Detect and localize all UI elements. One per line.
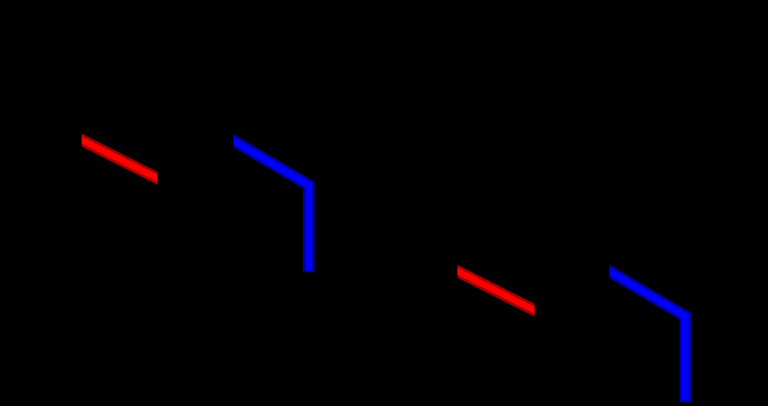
red highlighted bond 2 (lower-middle diagonal) <box>457 265 534 317</box>
red highlighted bond 1 (upper-left diagonal) <box>82 134 158 185</box>
blue highlighted bond pair 1 (diagonal + vertical substituent) <box>234 134 315 272</box>
blue highlighted bond pair 2 (diagonal + vertical substituent, lower-right) <box>610 265 692 403</box>
